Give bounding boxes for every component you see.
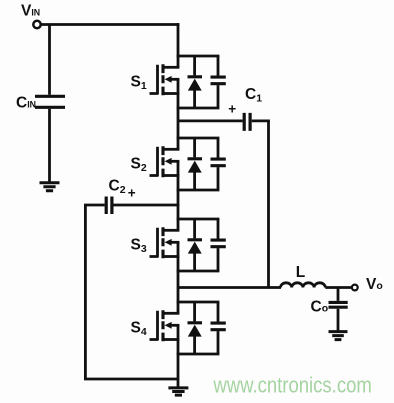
wire: drop from top rail to CIN <box>48 25 51 95</box>
wire: S2 source to S3 drain (node B) <box>177 161 180 230</box>
wire: S3 cell bottom rail <box>177 270 220 273</box>
wire: inductor to VO terminal <box>325 286 352 289</box>
capacitor C1 (flying capacitor) <box>244 113 250 131</box>
wire: S1 drain vertical <box>177 23 180 67</box>
diode D2 (body diode) <box>193 138 196 190</box>
capacitor Coss3 (switch output capacitance) <box>217 219 220 271</box>
transistor S3 gate <box>150 228 159 257</box>
wire: node A to C1 left plate <box>178 120 243 123</box>
wire: S2 cell top rail <box>177 137 220 140</box>
transistor S4 body stub with arrow <box>171 324 180 327</box>
wire: C2 left vertical down <box>84 205 87 379</box>
wire: bottom return to S4 source <box>84 378 178 381</box>
transistor S4 source stub <box>164 338 180 341</box>
wire: CO to ground <box>337 309 340 331</box>
wire: S4 source to ground <box>177 325 180 387</box>
transistor S4 channel <box>161 310 164 341</box>
transistor S1 channel <box>161 64 164 95</box>
transistor S1 body stub with arrow <box>171 78 180 81</box>
svg-text:+: + <box>128 185 136 200</box>
transistor S3 source stub <box>164 255 180 258</box>
transistor S2 gate <box>150 147 159 176</box>
diode D3 (body diode) <box>193 219 196 271</box>
transistor S3 body stub with arrow <box>171 241 180 244</box>
transistor S2 body stub with arrow <box>171 160 180 163</box>
transistor S4 gate <box>150 311 159 340</box>
wire: S1 source to S2 drain (node A) <box>177 79 180 149</box>
capacitor Coss1 (switch output capacitance) <box>217 56 220 108</box>
wire: S2 cell bottom rail <box>177 189 220 192</box>
wire: S3 source to S4 drain (node C) <box>177 242 180 313</box>
svg-text:www.cntronics.com: www.cntronics.com <box>213 373 372 398</box>
wire: C2 left plate lead <box>84 204 105 207</box>
capacitor CIN <box>35 96 65 107</box>
capacitor Coss2 (switch output capacitance) <box>217 138 220 190</box>
wire: S4 cell bottom rail <box>177 353 220 356</box>
transistor S1 source stub <box>164 92 180 95</box>
wire: output node down to CO <box>337 288 340 301</box>
transistor S3 channel <box>161 227 164 258</box>
wire: C1 vertical down to node C <box>267 121 270 288</box>
ground (below CO) <box>329 332 348 340</box>
wire: C2 right plate to node B <box>114 204 180 207</box>
transistor S1 drain stub <box>164 66 180 69</box>
capacitor C2 (flying capacitor) <box>106 197 112 215</box>
node VIN input terminal <box>33 21 40 28</box>
capacitor CO (output) <box>329 302 348 307</box>
wire: C1 right plate to right vertical <box>252 120 270 123</box>
ground (below S4, main) <box>168 388 188 395</box>
wire: node C to inductor <box>178 286 281 289</box>
transistor S2 drain stub <box>164 148 180 151</box>
transistor S1 gate <box>150 65 159 94</box>
diode D4 (body diode) <box>193 302 196 354</box>
transistor S3 drain stub <box>164 229 180 232</box>
transistor S4 drain stub <box>164 312 180 315</box>
wire: S3 cell top rail <box>177 218 220 221</box>
transistor S2 channel <box>161 146 164 177</box>
wire: CIN to ground <box>48 109 51 182</box>
transistor S2 source stub <box>164 174 180 177</box>
wire: S4 cell top rail <box>177 301 220 304</box>
ground (below CIN) <box>40 183 60 191</box>
capacitor Coss4 (switch output capacitance) <box>217 302 220 354</box>
svg-text:+: + <box>228 102 236 117</box>
wire: S1 cell top rail <box>177 55 220 58</box>
svg-text:L: L <box>296 264 305 281</box>
wire: top rail from VIN to S1 drain <box>41 23 180 26</box>
wire: S1 cell bottom rail <box>177 107 220 110</box>
node VO output terminal <box>352 285 358 291</box>
diode D1 (body diode) <box>193 56 196 108</box>
inductor L <box>281 283 326 288</box>
